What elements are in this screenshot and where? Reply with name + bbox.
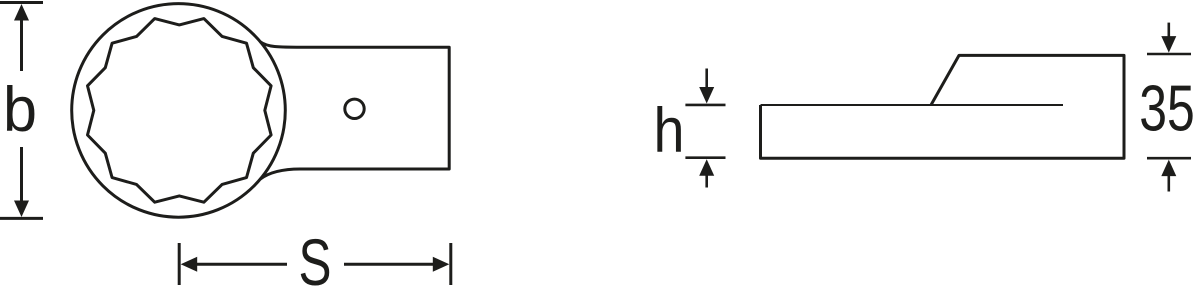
- svg-text:S: S: [299, 225, 332, 297]
- svg-text:b: b: [3, 75, 37, 145]
- svg-text:h: h: [654, 96, 685, 166]
- svg-text:35: 35: [1139, 72, 1195, 145]
